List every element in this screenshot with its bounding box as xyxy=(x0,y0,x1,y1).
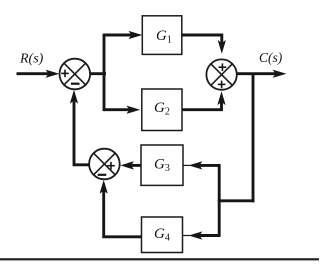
wire G2 output to junction 2 bottom input xyxy=(182,100,222,110)
block G1 xyxy=(142,16,182,55)
block G3 xyxy=(141,145,183,185)
summing junction 1 (circle with X cross) xyxy=(60,59,91,90)
wire junction 3 output left and up to junction 1 bottom (minus input) xyxy=(74,99,89,165)
wire G4 output left and up to junction 3 bottom (minus input) xyxy=(104,189,142,237)
node A branch vertical xyxy=(103,34,106,112)
plus sign (bottom input of junction 2) xyxy=(218,81,226,89)
node B branch vertical xyxy=(218,164,221,237)
minus sign (bottom input of junction 1) xyxy=(71,83,80,85)
plus sign (top input of junction 2) xyxy=(219,63,227,71)
wire input R(s) to summing junction 1 xyxy=(17,72,51,75)
summing junction 3 (circle with X cross) xyxy=(89,149,120,180)
wire junction 1 output to branch node A xyxy=(90,72,106,75)
summing junction 2 (circle with X cross) xyxy=(206,59,236,89)
plus sign (right input of junction 3) xyxy=(107,162,115,170)
minus sign (bottom input of junction 3) xyxy=(98,174,107,176)
wire branch B to G4 input xyxy=(198,234,219,237)
wire G3 output to junction 3 right input xyxy=(129,164,141,167)
bottom rule xyxy=(0,258,319,260)
wire feedback horizontal to branch B xyxy=(218,199,255,202)
wire branch to G2 xyxy=(104,108,130,111)
block G2 xyxy=(142,89,182,131)
svg-text:C(s): C(s) xyxy=(259,50,283,65)
plus sign (left input of junction 1) xyxy=(61,70,69,78)
wire branch to G1 xyxy=(104,34,132,37)
wire G1 output to junction 2 top input xyxy=(182,35,222,44)
wire junction 2 output to C(s) xyxy=(237,72,277,75)
svg-text:R(s): R(s) xyxy=(19,52,44,67)
block G4 xyxy=(142,217,183,253)
wire takeoff point down from output line xyxy=(252,74,255,203)
wire branch B to G3 input xyxy=(198,164,219,167)
